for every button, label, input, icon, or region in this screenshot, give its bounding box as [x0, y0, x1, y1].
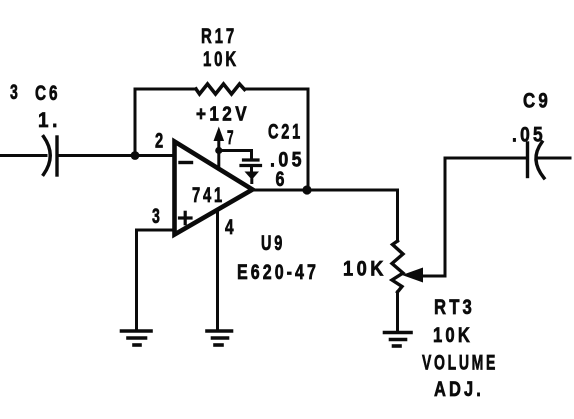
op-amp U9 741 triangle: [175, 142, 253, 235]
wire C9 output right: [538, 157, 570, 160]
wire top right to C9: [445, 157, 526, 160]
svg-text:RT3: RT3: [434, 296, 475, 319]
wire pin 7 vertical: [217, 140, 220, 169]
svg-text:6: 6: [276, 168, 288, 191]
svg-text:10K: 10K: [433, 324, 473, 347]
wire output to pot top: [396, 190, 399, 241]
svg-text:10K: 10K: [343, 258, 387, 281]
svg-text:ADJ.: ADJ.: [434, 378, 484, 401]
plus sign non-inverting input: [180, 212, 192, 223]
svg-text:10K: 10K: [203, 48, 239, 71]
svg-text:R17: R17: [201, 25, 237, 48]
wire C6 to node A: [59, 154, 136, 157]
wire feedback top right: [245, 88, 309, 91]
svg-text:741: 741: [192, 184, 225, 207]
svg-text:1.: 1.: [38, 109, 61, 132]
wiper arrow RT3: [402, 268, 423, 283]
svg-text:C6: C6: [35, 82, 61, 105]
junction pin 7 node: [215, 147, 222, 154]
svg-text:.05: .05: [512, 124, 546, 147]
wire input left segment: [0, 154, 46, 157]
wire pin 7 to C21: [220, 151, 252, 160]
wire pin 4 vertical: [216, 212, 219, 330]
ground (pin 4): [207, 331, 232, 345]
+12V power arrow: [214, 127, 225, 142]
capacitor C9: [528, 142, 545, 178]
junction node B output: [302, 185, 311, 194]
wire output pin 6: [253, 189, 398, 192]
wire pin 2 input: [135, 154, 175, 157]
wire pin 3: [137, 230, 175, 329]
wire pot bottom: [396, 292, 399, 331]
svg-text:3: 3: [152, 205, 163, 228]
ground arrow below C21: [245, 166, 260, 183]
minus sign inverting input: [180, 161, 192, 164]
wire feedback top left: [135, 88, 196, 91]
svg-text:VOLUME: VOLUME: [422, 352, 498, 375]
ground (pin 3): [122, 331, 152, 345]
wire feedback left vertical: [134, 89, 137, 156]
svg-text:4: 4: [225, 216, 237, 239]
wire wiper to riser: [420, 158, 445, 276]
ground (RT3): [385, 333, 412, 347]
svg-text:3: 3: [10, 81, 21, 104]
wire feedback right vertical: [307, 89, 310, 190]
svg-text:U9: U9: [261, 232, 285, 255]
capacitor C21: [241, 160, 261, 166]
svg-text:C21: C21: [268, 121, 303, 144]
resistor R17: [196, 84, 245, 94]
junction node A: [131, 151, 140, 160]
svg-text:7: 7: [227, 128, 236, 149]
svg-text:C9: C9: [523, 90, 551, 113]
svg-text:E620-47: E620-47: [237, 261, 319, 284]
svg-text:+12V: +12V: [196, 104, 250, 126]
potentiometer RT3 resistor body: [392, 241, 403, 292]
svg-text:2: 2: [155, 130, 166, 153]
capacitor C6: [44, 137, 58, 176]
